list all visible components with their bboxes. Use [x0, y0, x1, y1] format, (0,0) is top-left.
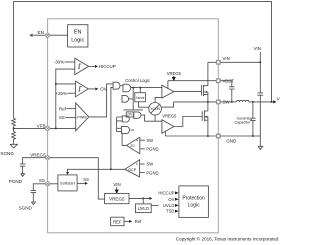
svg-text:REF: REF [113, 220, 122, 225]
wire: VREG5/VBST bootstrap line [168, 80, 216, 82]
node: VOUT junction at cap [252, 101, 254, 103]
wire: G6 output stub [131, 129, 134, 131]
capacitor C1 (VREG5 bypass) [20, 164, 26, 174]
wire: VIN rail into Q1 drain [208, 62, 216, 85]
EN Logic block [68, 25, 88, 47]
svg-text:Logic: Logic [71, 38, 84, 44]
wire: branch down into UVLO [142, 198, 144, 204]
svg-text:Protection: Protection [182, 195, 205, 201]
VREG5 regulator block [105, 193, 129, 203]
gate G1 [113, 82, 120, 89]
label pointer dash for ceramic capacitor [251, 119, 252, 121]
EN input open arrowhead [30, 34, 32, 37]
node: output cap to GND [252, 135, 254, 137]
wire: OCP line feeder up to gate G1 [111, 87, 113, 169]
node: Q2 source / GND [207, 135, 209, 137]
wire: 1shot bottom to XCON [139, 102, 149, 107]
comparator U2 HICCUP [75, 58, 89, 74]
wire: ZC PGND sense stub [140, 148, 145, 150]
wire: SW pin to inductor [221, 101, 237, 103]
REF block [111, 217, 124, 226]
wire: Q1 source to SW line [207, 95, 209, 102]
svg-text:GND: GND [226, 138, 236, 143]
wire: Q2 source to GND line [207, 120, 209, 136]
inductor L1 [236, 100, 249, 102]
svg-text:1shot: 1shot [136, 96, 145, 100]
wire: VFB pin to PWM inverting input [50, 127, 76, 129]
wire: XCON bottom stub [154, 115, 156, 121]
svg-text:OV: OV [100, 87, 106, 92]
node: junction G2-line / 1shot [139, 87, 141, 89]
svg-text:VREG5: VREG5 [109, 196, 125, 201]
body arrow Q2 [205, 116, 208, 118]
wire: HS driver output to Q1 gate [174, 91, 202, 93]
ground SGND (below divider) [10, 144, 17, 148]
svg-text:Capacitor: Capacitor [235, 120, 252, 124]
svg-text:VIN: VIN [254, 46, 261, 51]
svg-text:EN: EN [74, 30, 82, 36]
wire: UVLO output stub [151, 204, 158, 206]
ground PGND symbol [21, 174, 25, 177]
svg-text:-30%: -30% [54, 60, 64, 65]
node: OCP line / feeder junction [110, 168, 112, 170]
node: Q1 source / SW [207, 101, 209, 103]
wire: 1shot top feed [139, 88, 141, 93]
capacitor C3 (input, on VIN) [258, 93, 264, 136]
arrow OCP into Softstart [66, 172, 69, 175]
capacitor C2 (soft-start) [31, 190, 36, 202]
svg-text:VFB: VFB [37, 123, 46, 128]
pin EN [45, 33, 49, 37]
wire: HICCUP output [89, 65, 95, 67]
svg-text:Ref: Ref [59, 106, 67, 111]
svg-text:SGND: SGND [19, 205, 33, 210]
node: junction G2-line / vertical [132, 87, 134, 89]
one-shot box 1shot [135, 93, 146, 102]
wire: -30% ref into HICCUP comparator [65, 61, 75, 63]
arrow HICCUP output [95, 65, 98, 68]
arrow UVLO into protection [175, 204, 179, 207]
UVLO block [135, 204, 151, 213]
transistor Q1 (high-side NMOS) gate bar [200, 85, 202, 96]
wire: PWM output up to gate G1 [89, 84, 113, 117]
polarity mark OCP + [136, 163, 138, 165]
wire: Ref into PWM [66, 108, 75, 110]
svg-text:OCP: OCP [128, 168, 136, 172]
arrow TSD into protection [175, 210, 179, 213]
transistor Q2 (low-side NMOS) gate bar [201, 111, 203, 121]
wire: SW internal line [174, 101, 217, 103]
wire: Q2 drain from SW line [207, 102, 209, 111]
wire: +25% ref into OV comparator [67, 92, 75, 94]
wire: min-on row bus [123, 109, 142, 111]
arrow VIN into VREG5 box [115, 187, 118, 193]
arrow REF output [129, 220, 132, 223]
transistor Q1 channel bar [203, 85, 205, 96]
arrow VREG5 output [149, 197, 152, 200]
hysteresis glyph U2 [78, 64, 81, 68]
svg-text:UVLO: UVLO [138, 206, 150, 211]
pin VFB [45, 126, 49, 130]
node: feeder junction at OV tap [55, 83, 57, 85]
gate G4 [134, 112, 141, 118]
wire: OCP SW sense stub [140, 163, 145, 165]
svg-text:TSD: TSD [166, 209, 174, 214]
wire: G2 output to high-side driver [131, 87, 162, 89]
wire: VBST pin to bootstrap cap [221, 81, 232, 87]
wire: vertical from G2 line down to min-on row [132, 88, 134, 110]
svg-text:HICCUP: HICCUP [99, 64, 116, 69]
pin VBST [216, 79, 220, 83]
wire: Softstart SS output [77, 182, 85, 184]
Protection Logic block [179, 186, 209, 218]
arrow VREG5 into VBST line [172, 76, 175, 80]
svg-text:Ref: Ref [135, 219, 142, 224]
svg-text:Copyright © 2016, Texas Instru: Copyright © 2016, Texas Instruments Inco… [176, 236, 279, 242]
svg-text:ZC: ZC [130, 144, 135, 148]
gate G5 [122, 116, 129, 122]
ground SGND symbol (soft-start cap) [31, 202, 35, 205]
wire: SS into PWM [65, 116, 76, 118]
circle XCON [149, 103, 162, 116]
svg-text:+25%: +25% [56, 91, 67, 96]
wire: G3 output to vertical [129, 98, 134, 100]
gate G3 [122, 96, 129, 103]
svg-text:PGND: PGND [146, 147, 158, 152]
node: feeder junction at VFB line [55, 127, 57, 129]
Softstart block [58, 175, 77, 191]
node: feedback tap on VOUT [271, 101, 273, 103]
svg-text:PWM: PWM [77, 116, 86, 120]
pin VIN [216, 60, 220, 64]
arrow VOUT [273, 100, 276, 103]
transistor Q2 drain/body/source stubs [205, 111, 208, 120]
arrow OV into protection [175, 198, 179, 201]
svg-text:VIN: VIN [113, 182, 120, 187]
gate G6 [122, 126, 130, 133]
capacitor C4 (bootstrap) [229, 87, 234, 102]
wire: VFB feeder vertical to comparators [56, 69, 76, 128]
wire: REF output [124, 220, 129, 222]
arrow SS output [85, 182, 88, 185]
wire: node FB to VFB pin [14, 127, 48, 129]
svg-text:SS: SS [39, 178, 45, 183]
hysteresis glyph U3 [78, 87, 81, 91]
svg-text:SS: SS [83, 177, 89, 182]
wire: ZC output up to G6 [122, 134, 126, 146]
pin GND [216, 134, 220, 138]
pin SW [216, 100, 220, 104]
svg-text:XCON: XCON [150, 107, 160, 111]
svg-text:VIN: VIN [223, 56, 230, 61]
comparator U3 OV [75, 81, 88, 97]
transistor Q1 drain/body/source stubs [204, 86, 208, 95]
svg-text:SGND: SGND [0, 151, 14, 156]
wire: LS driver output to Q2 gate [174, 117, 202, 127]
driver U6 (low-side) [162, 120, 174, 134]
pin SS [45, 182, 49, 186]
svg-text:VOUT: VOUT [277, 97, 280, 102]
wire: HS driver top rail to VBST line [167, 81, 169, 89]
svg-text:VREG5: VREG5 [30, 152, 46, 157]
wire: VREG5 output [129, 197, 149, 199]
svg-text:SS: SS [59, 115, 65, 120]
ground symbol (power ground, right) [258, 146, 263, 149]
IC boundary box U1 [48, 19, 219, 233]
node: divider junction [13, 127, 15, 129]
wire: OCP output to soft-start arrow [68, 169, 125, 172]
body arrow Q1 [204, 91, 207, 93]
svg-text:PGND: PGND [146, 170, 158, 175]
wire: inductor to VOUT arrow [249, 101, 273, 103]
box ON (min-on timer) [126, 112, 133, 117]
wire: EN pin to EN Logic [48, 34, 68, 36]
wire: OV output [88, 88, 95, 90]
wire: G4 output to low-side driver [141, 115, 162, 121]
wire: GND internal line [165, 135, 216, 137]
node: VREG5 output to UVLO [142, 197, 144, 199]
svg-text:PGND: PGND [9, 179, 23, 184]
svg-text:Softstart: Softstart [60, 181, 76, 186]
svg-text:VREG5: VREG5 [162, 114, 177, 119]
arrow OV output [95, 87, 98, 90]
wire: G1 to G2 [120, 85, 123, 87]
node: VIN external junction [259, 61, 261, 63]
wire: G6 input stubs [117, 128, 122, 131]
wire: XCON top to HS driver lower input [155, 97, 162, 102]
svg-text:ON: ON [128, 113, 133, 117]
wire: VREG5 pin to VREG5 regulator [50, 158, 105, 199]
wire: SS pin to external cap [33, 184, 45, 190]
svg-text:EN: EN [38, 30, 44, 35]
wire: ZC SW sense stub [140, 139, 145, 141]
wire: VIN pin to external VIN node [221, 61, 261, 63]
wire: XCON right to SW node [161, 102, 173, 107]
wire: GND line to board ground [221, 136, 261, 146]
svg-text:VREG5: VREG5 [167, 71, 182, 76]
svg-text:HICCUP: HICCUP [158, 191, 174, 196]
comparator U4 PWM [76, 103, 89, 131]
comparator U7 ZC (points left) [127, 137, 140, 154]
svg-text:Logic: Logic [188, 202, 200, 208]
svg-text:UVLO: UVLO [163, 203, 175, 208]
capacitor C5 (output ceramic) [250, 102, 255, 136]
resistor R2 (lower feedback divider) [12, 128, 16, 144]
wire: SS pin into Softstart [50, 183, 58, 185]
svg-text:SW: SW [146, 138, 153, 143]
svg-text:Control Logic: Control Logic [125, 78, 150, 83]
wire: VREG5 pin to external cap [23, 158, 46, 164]
driver U5 (high-side) [162, 85, 174, 98]
gate G2 [123, 84, 131, 92]
comparator U8 OCP (points left) [125, 160, 140, 177]
svg-text:SW: SW [146, 162, 153, 167]
wire: OCP PGND sense stub [140, 172, 145, 174]
wire: G5 input stubs [117, 117, 123, 132]
polarity mark ZC + [136, 139, 138, 141]
pin VREG5 [45, 156, 49, 160]
wire: feedback from VOUT node up and across top to divider [14, 2, 272, 119]
wire: external VIN supply drop [259, 52, 261, 93]
svg-text:OV: OV [168, 197, 174, 202]
wire: LS driver bottom rail to GND line [164, 131, 166, 136]
arrow HICCUP into protection [175, 191, 179, 194]
wire: EN input stub [31, 34, 48, 36]
transistor Q2 channel bar [204, 110, 206, 121]
resistor R1 (upper feedback divider) [12, 118, 16, 128]
node: bootstrap cap on SW [231, 101, 233, 103]
